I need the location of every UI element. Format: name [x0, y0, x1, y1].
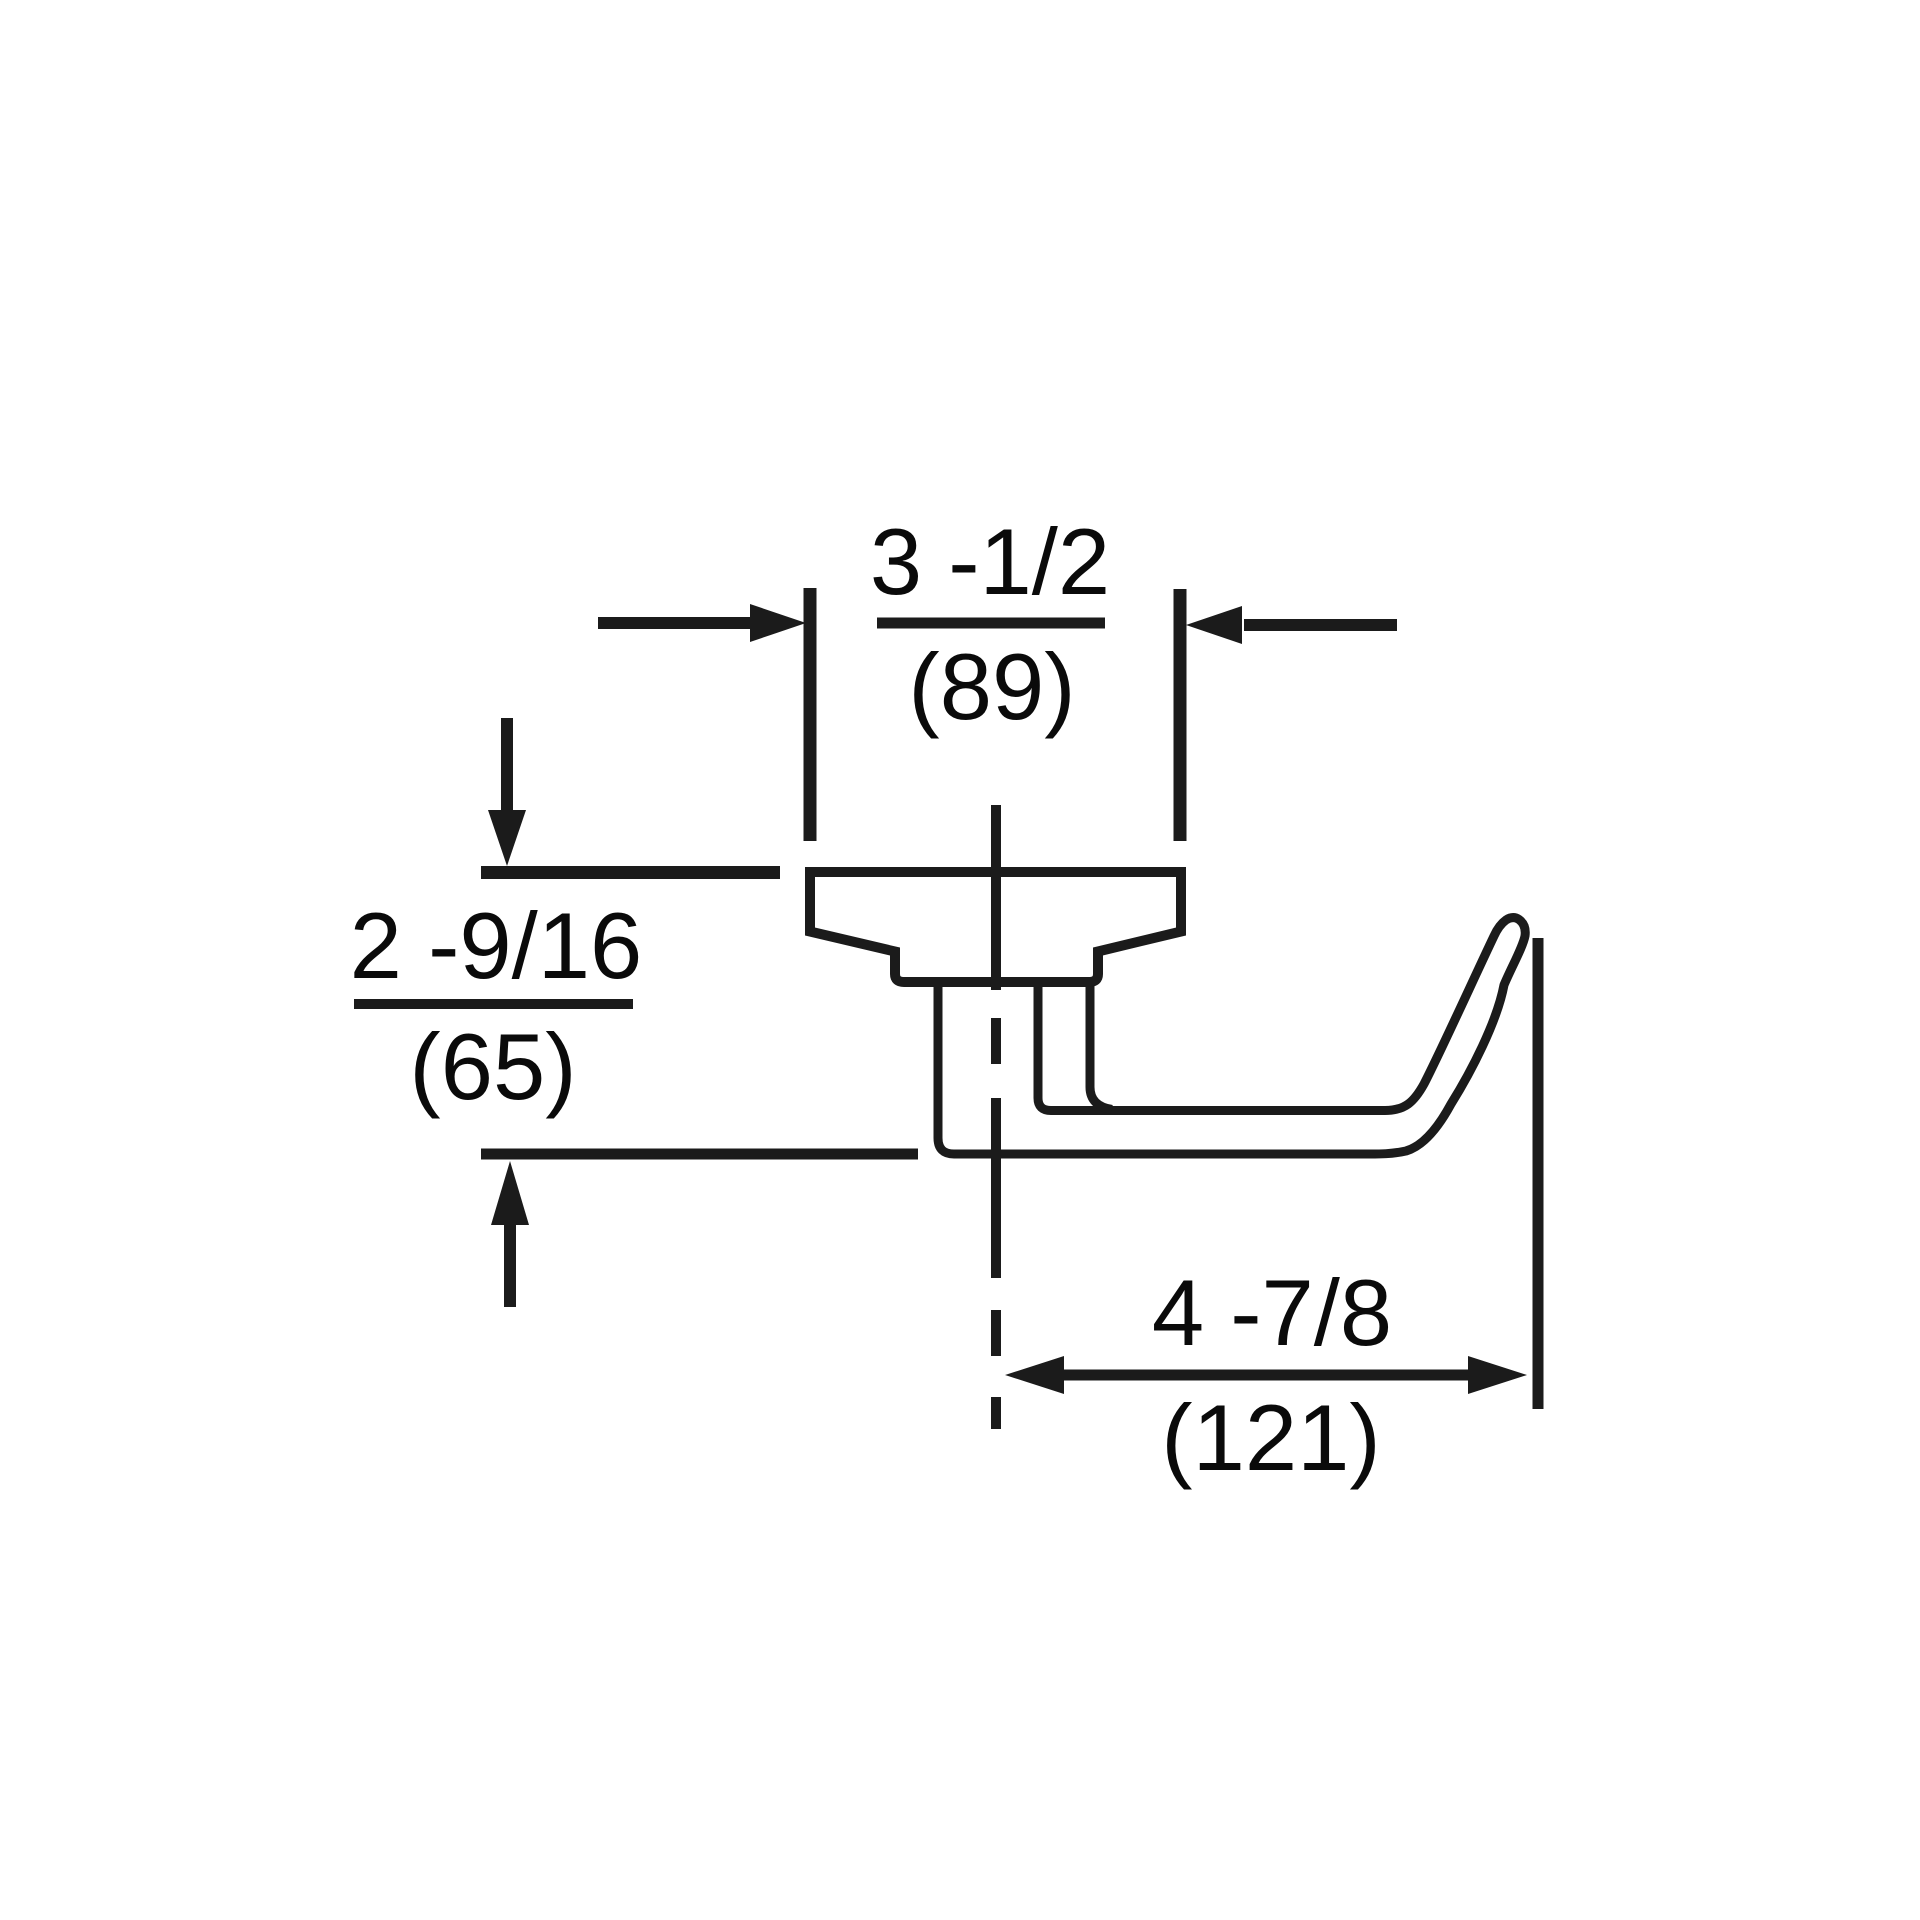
top dimension right arrow shaft: [1244, 619, 1397, 631]
lever arm and neck outline: [938, 918, 1525, 1154]
bottom dimension right extension line: [1533, 938, 1544, 1409]
bottom dimension line shaft: [1062, 1370, 1468, 1381]
top dimension right arrowhead: [1186, 606, 1242, 644]
top dimension left arrowhead: [750, 604, 806, 642]
center line dash: [991, 1310, 1001, 1356]
left dimension bottom reference line: [481, 1149, 918, 1160]
left dimension up arrowhead: [491, 1161, 529, 1225]
svg-text:3 -1/2: 3 -1/2: [870, 509, 1110, 614]
top dimension left extension line: [804, 588, 817, 841]
center line dash: [991, 1397, 1001, 1429]
center line solid top segment: [991, 805, 1001, 990]
bottom dimension left arrowhead: [1005, 1356, 1064, 1394]
top dimension fraction bar: [877, 618, 1105, 629]
top dimension left arrow shaft: [598, 617, 752, 629]
bottom dimension right arrowhead: [1468, 1356, 1527, 1394]
neck outer right edge: [1090, 983, 1112, 1110]
svg-text:(121): (121): [1161, 1385, 1380, 1490]
top dimension right extension line: [1174, 589, 1187, 841]
left dimension up arrow shaft: [504, 1225, 516, 1307]
left dimension down arrow shaft: [501, 718, 513, 812]
rose plate outline: [810, 872, 1181, 982]
center line solid middle segment: [991, 1098, 1001, 1278]
left dimension top reference line: [481, 866, 780, 879]
svg-text:2 -9/16: 2 -9/16: [350, 893, 643, 998]
svg-text:(65): (65): [409, 1014, 576, 1119]
svg-text:(89): (89): [908, 634, 1075, 739]
center line dash: [991, 1018, 1001, 1064]
svg-text:4 -7/8: 4 -7/8: [1152, 1260, 1392, 1365]
left dimension down arrowhead: [488, 810, 526, 866]
left dimension fraction bar: [354, 999, 633, 1009]
